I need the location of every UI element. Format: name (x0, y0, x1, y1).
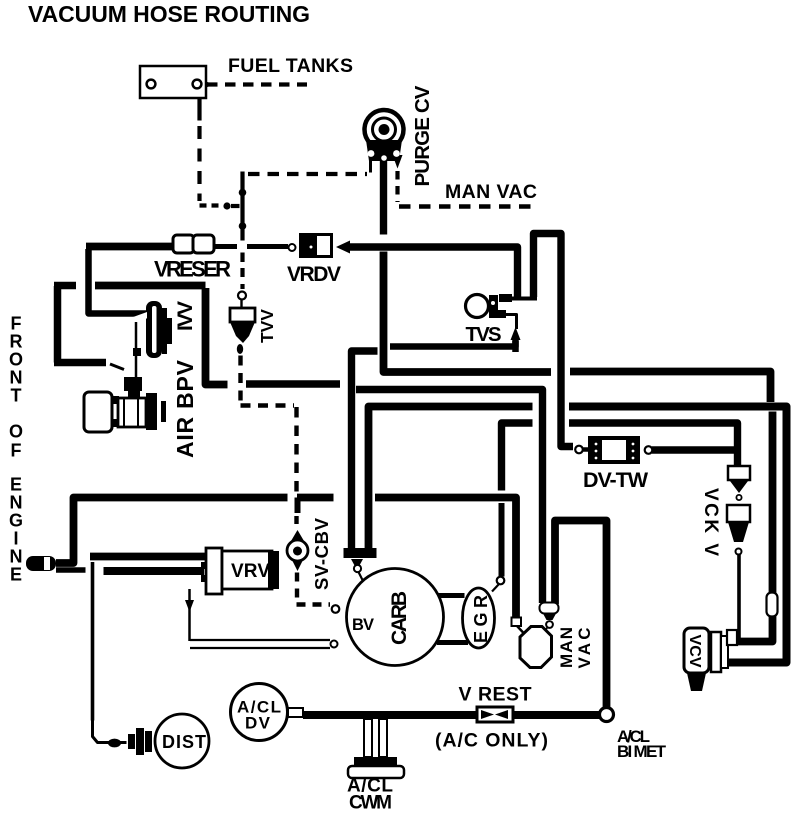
svg-text:CARB: CARB (388, 591, 411, 645)
svg-text:E: E (10, 565, 22, 585)
svg-text:AIR BPV: AIR BPV (172, 359, 198, 458)
svg-text:O: O (9, 350, 23, 370)
svg-text:I: I (13, 529, 18, 549)
svg-text:F: F (11, 441, 22, 461)
svg-text:T: T (11, 386, 22, 406)
svg-text:R: R (10, 332, 23, 352)
svg-text:TVV: TVV (257, 309, 277, 343)
svg-text:DV: DV (245, 714, 271, 733)
svg-text:PURGE CV: PURGE CV (411, 85, 434, 186)
svg-text:IVV: IVV (174, 301, 197, 331)
svg-text:VCK V: VCK V (700, 488, 721, 556)
svg-text:BV: BV (352, 616, 374, 634)
svg-text:CWM: CWM (349, 793, 392, 814)
svg-text:FUEL TANKS: FUEL TANKS (228, 55, 353, 77)
svg-text:DIST: DIST (162, 732, 206, 752)
svg-text:E: E (10, 475, 22, 495)
svg-text:G: G (9, 511, 23, 531)
svg-text:DV-TW: DV-TW (583, 468, 649, 492)
svg-text:O: O (9, 422, 23, 442)
svg-text:MAN VAC: MAN VAC (445, 181, 537, 203)
svg-text:VRESER: VRESER (154, 257, 231, 282)
svg-text:F: F (11, 314, 22, 334)
svg-text:N: N (10, 368, 23, 388)
svg-text:MAN: MAN (557, 627, 576, 668)
svg-text:V REST: V REST (459, 684, 532, 706)
svg-text:N: N (10, 547, 23, 567)
svg-text:N: N (10, 493, 23, 513)
svg-text:VRDV: VRDV (287, 263, 341, 286)
svg-text:(A/C ONLY): (A/C ONLY) (435, 730, 548, 752)
svg-text:VACUUM HOSE ROUTING: VACUUM HOSE ROUTING (28, 1, 310, 27)
svg-text:VAC: VAC (575, 628, 594, 669)
svg-text:TVS: TVS (466, 323, 502, 346)
svg-text:VRV: VRV (231, 561, 270, 582)
svg-text:BI MET: BI MET (617, 742, 667, 761)
svg-text:SV-CBV: SV-CBV (311, 517, 332, 590)
svg-text:VCV: VCV (686, 635, 703, 668)
svg-text:EGR: EGR (471, 595, 491, 643)
